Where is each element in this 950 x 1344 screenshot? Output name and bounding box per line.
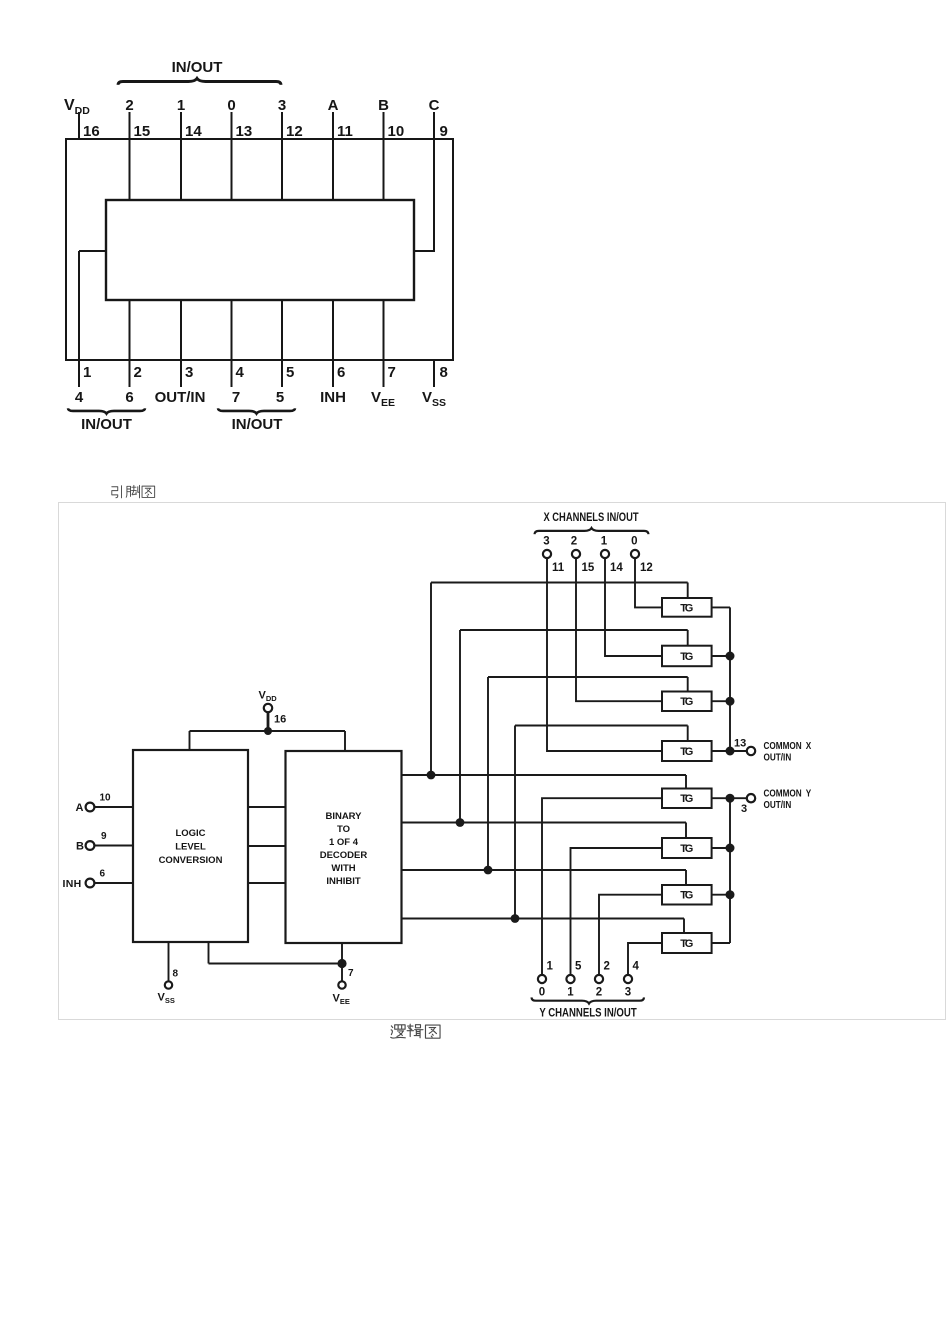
svg-text:12: 12: [640, 562, 653, 574]
svg-text:VDD: VDD: [64, 97, 90, 117]
svg-text:IN/OUT: IN/OUT: [81, 416, 132, 433]
svg-text:8: 8: [440, 364, 448, 381]
svg-text:CONVERSION: CONVERSION: [159, 855, 223, 866]
svg-text:2: 2: [604, 961, 610, 973]
svg-text:0: 0: [631, 536, 637, 548]
svg-text:16: 16: [83, 123, 100, 140]
svg-text:13: 13: [734, 738, 746, 750]
svg-text:DECODER: DECODER: [320, 850, 368, 861]
svg-text:5: 5: [276, 389, 284, 406]
svg-text:BINARY: BINARY: [325, 811, 362, 822]
svg-text:2: 2: [134, 364, 142, 381]
svg-text:TO: TO: [337, 824, 350, 835]
svg-text:11: 11: [552, 562, 565, 574]
svg-text:X CHANNELS IN/OUT: X CHANNELS IN/OUT: [543, 511, 638, 524]
svg-text:INH: INH: [320, 389, 346, 406]
svg-text:VEE: VEE: [333, 993, 350, 1007]
svg-text:15: 15: [134, 123, 151, 140]
svg-text:0: 0: [227, 97, 235, 114]
svg-text:OUT/IN: OUT/IN: [155, 389, 206, 406]
svg-text:3: 3: [185, 364, 193, 381]
svg-text:IN/OUT: IN/OUT: [232, 416, 283, 433]
svg-text:5: 5: [286, 364, 294, 381]
svg-text:6: 6: [100, 869, 106, 880]
svg-text:3: 3: [278, 97, 286, 114]
svg-text:3: 3: [741, 803, 747, 815]
svg-text:1: 1: [547, 961, 554, 973]
svg-text:2: 2: [125, 97, 133, 114]
svg-text:5: 5: [575, 961, 582, 973]
svg-text:VSS: VSS: [422, 389, 446, 409]
svg-text:7: 7: [388, 364, 396, 381]
svg-text:C: C: [429, 97, 440, 114]
svg-text:14: 14: [610, 562, 623, 574]
svg-text:TG: TG: [680, 890, 693, 902]
svg-text:IN/OUT: IN/OUT: [172, 59, 223, 76]
svg-text:11: 11: [337, 123, 353, 140]
svg-text:4: 4: [633, 961, 640, 973]
svg-text:6: 6: [125, 389, 133, 406]
svg-text:0: 0: [539, 987, 545, 999]
svg-text:3: 3: [543, 536, 549, 548]
svg-text:14: 14: [185, 123, 202, 140]
svg-text:COMMON X: COMMON X: [764, 740, 812, 751]
svg-text:VSS: VSS: [158, 992, 175, 1006]
svg-text:15: 15: [582, 562, 595, 574]
svg-text:9: 9: [440, 123, 448, 140]
svg-text:1: 1: [83, 364, 91, 381]
svg-text:TG: TG: [680, 843, 693, 855]
svg-text:7: 7: [232, 389, 240, 406]
svg-text:6: 6: [337, 364, 345, 381]
svg-text:9: 9: [101, 831, 107, 842]
svg-text:A: A: [76, 802, 84, 814]
svg-text:LEVEL: LEVEL: [175, 842, 206, 853]
svg-text:1: 1: [601, 536, 608, 548]
svg-text:7: 7: [348, 968, 354, 979]
svg-text:OUT/IN: OUT/IN: [764, 799, 792, 810]
svg-text:WITH: WITH: [331, 863, 355, 874]
svg-text:COMMON Y: COMMON Y: [764, 788, 812, 799]
svg-text:B: B: [378, 97, 389, 114]
svg-text:TG: TG: [680, 602, 693, 614]
svg-text:INH: INH: [63, 878, 82, 890]
svg-text:2: 2: [571, 536, 577, 548]
svg-text:4: 4: [75, 389, 84, 406]
svg-text:TG: TG: [680, 746, 693, 758]
svg-text:VEE: VEE: [371, 389, 395, 409]
svg-text:8: 8: [173, 969, 179, 980]
svg-text:16: 16: [274, 714, 286, 726]
svg-text:2: 2: [596, 987, 602, 999]
svg-text:TG: TG: [680, 651, 693, 663]
svg-text:Y CHANNELS IN/OUT: Y CHANNELS IN/OUT: [539, 1007, 637, 1020]
svg-text:10: 10: [388, 123, 405, 140]
svg-text:A: A: [328, 97, 339, 114]
svg-text:OUT/IN: OUT/IN: [764, 752, 792, 763]
svg-text:4: 4: [236, 364, 245, 381]
svg-text:3: 3: [625, 987, 631, 999]
svg-text:TG: TG: [680, 793, 693, 805]
svg-text:13: 13: [236, 123, 253, 140]
svg-text:12: 12: [286, 123, 303, 140]
svg-text:1: 1: [177, 97, 185, 114]
svg-text:TG: TG: [680, 696, 693, 708]
svg-text:10: 10: [100, 793, 112, 804]
svg-text:1: 1: [567, 987, 574, 999]
svg-text:INHIBIT: INHIBIT: [326, 876, 361, 887]
svg-text:B: B: [76, 841, 84, 853]
svg-text:1 OF 4: 1 OF 4: [329, 837, 359, 848]
svg-text:VDD: VDD: [259, 690, 278, 704]
svg-text:LOGIC: LOGIC: [175, 828, 205, 839]
svg-text:TG: TG: [680, 938, 693, 950]
